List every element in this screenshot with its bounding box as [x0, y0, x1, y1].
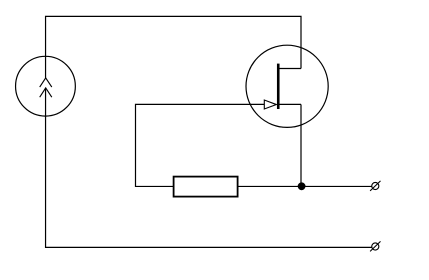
transistor Q1 circle — [246, 45, 328, 127]
current source I1 arrow chevron lower — [40, 88, 52, 97]
current source I1 arrow chevron upper — [40, 78, 52, 87]
wire: bottom net (current source bottom to terminal P2) — [46, 88, 372, 247]
transistor Q1 channel bar — [277, 64, 280, 109]
wire: gate net (transistor gate to resistor left) — [136, 104, 265, 186]
wire: junction node to terminal P1 — [302, 185, 372, 187]
transistor Q1 drain lead — [278, 68, 301, 70]
terminal P1 slash — [370, 181, 380, 191]
wire: transistor source down to junction node — [300, 104, 302, 186]
transistor Q1 gate arrow — [264, 100, 276, 109]
junction node dot — [298, 182, 306, 190]
current source I1 circle — [16, 56, 76, 116]
wire: resistor right to junction node — [238, 185, 302, 187]
terminal P1 circle (top output) — [372, 182, 379, 189]
transistor Q1 source lead — [278, 103, 301, 105]
terminal P2 circle (bottom output) — [372, 243, 379, 250]
terminal P2 slash — [370, 241, 380, 251]
wire: top net (current source top to drain), upper segment into chevron apex — [46, 16, 301, 78]
resistor R1 — [174, 177, 238, 197]
